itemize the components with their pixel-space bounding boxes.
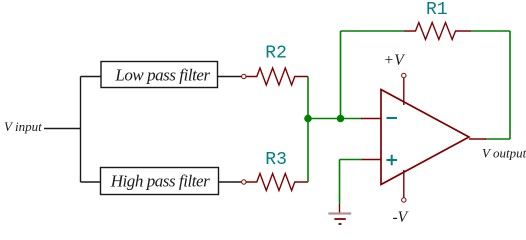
wire to high pass filter — [81, 181, 102, 183]
terminal +V — [402, 73, 406, 77]
wire op-amp output lead — [469, 138, 486, 140]
svg-text:V output: V output — [482, 146, 526, 161]
wire low pass output — [218, 76, 242, 78]
svg-text:Low pass filter: Low pass filter — [114, 66, 210, 85]
terminal pin of R2 — [242, 74, 246, 78]
wire positive supply — [403, 78, 405, 105]
junction node right — [337, 115, 345, 123]
block high pass filter — [101, 168, 219, 195]
wire to ground vertical — [339, 160, 341, 205]
svg-text:V input: V input — [4, 119, 42, 134]
terminal pin of R3 — [242, 180, 246, 184]
wire high pass output — [219, 181, 241, 183]
svg-text:High pass filter: High pass filter — [110, 172, 210, 191]
resistor R2 — [246, 44, 308, 86]
wire feedback vertical right — [509, 31, 511, 139]
wire op-amp inverting input lead — [361, 118, 381, 120]
svg-text:-V: -V — [393, 209, 409, 226]
block low pass filter — [101, 62, 218, 88]
wire negative supply — [403, 170, 405, 198]
wire op-amp noninverting lead — [361, 159, 381, 161]
wire feedback vertical left — [340, 31, 342, 119]
wire to ground horizontal — [340, 159, 363, 161]
resistor R3 — [246, 150, 308, 191]
svg-text:R3: R3 — [265, 150, 287, 170]
op-amp U1 — [381, 90, 469, 185]
wire ground lead — [339, 204, 341, 213]
wire feedback top right — [471, 30, 510, 32]
wire to low pass filter — [81, 76, 102, 78]
wire Vin lead — [44, 128, 81, 130]
wire center vertical green — [307, 77, 309, 183]
ground — [328, 214, 351, 225]
svg-text:R1: R1 — [426, 0, 448, 20]
wire feedback top left — [341, 30, 405, 32]
svg-text:+V: +V — [385, 52, 406, 69]
svg-text:R2: R2 — [265, 44, 287, 64]
wire summing node horizontal — [308, 118, 362, 120]
wire input branch vertical — [80, 77, 82, 183]
resistor R1 — [404, 0, 471, 40]
terminal -V — [402, 198, 406, 202]
wire output green — [485, 138, 510, 140]
junction node left — [304, 115, 312, 123]
